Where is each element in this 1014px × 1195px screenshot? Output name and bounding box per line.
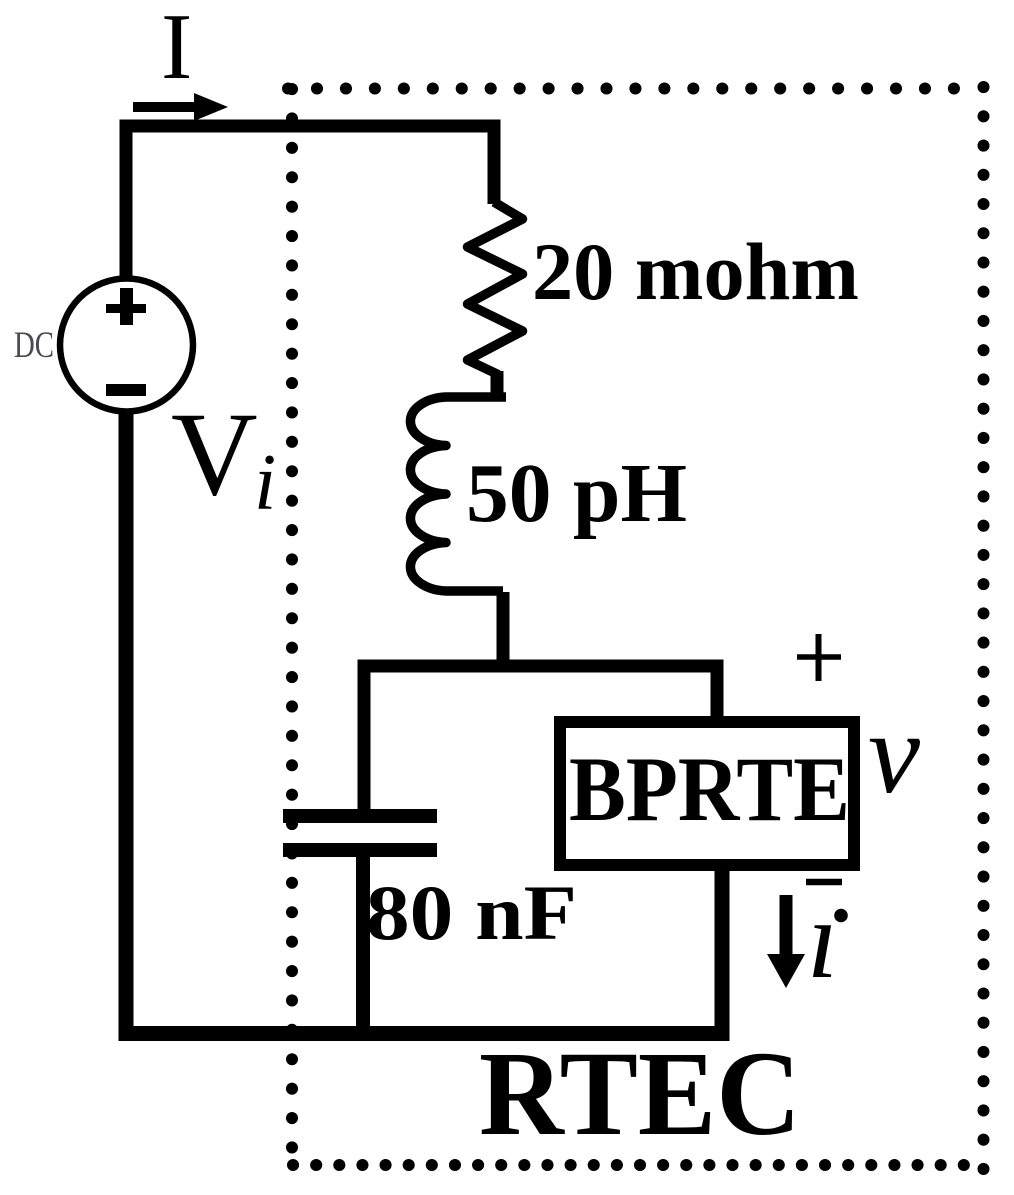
svg-text:DC: DC	[14, 325, 54, 366]
svg-text:20 mohm: 20 mohm	[532, 226, 859, 317]
svg-text:50 pH: 50 pH	[466, 447, 687, 540]
BPRTE box U1	[560, 722, 854, 865]
wire: left wire bottom + bottom wire + BPRTE bottom stub	[126, 408, 722, 1034]
svg-text:BPRTE: BPRTE	[569, 738, 850, 840]
inductor L 50 pH coil	[410, 397, 506, 591]
wire: resistor bottom stub junction	[491, 371, 504, 396]
wire: top bar of parallel section with capacitor branch down and BPRTE stub	[364, 666, 717, 812]
current arrow i (down)	[780, 895, 793, 958]
polarity minus below box	[806, 879, 842, 886]
polarity plus above BPRTE	[797, 654, 841, 660]
resistor R 20 mohm zigzag	[468, 202, 523, 399]
dotted box RTEC boundary: bottom edge	[293, 1159, 984, 1171]
svg-text:V: V	[171, 387, 258, 520]
DC source plus sign	[106, 304, 146, 313]
dotted box RTEC boundary: right edge	[978, 87, 990, 1172]
DC source minus sign	[106, 384, 146, 396]
svg-text:ı: ı	[807, 878, 838, 1002]
svg-text:i: i	[254, 439, 276, 527]
svg-text:I: I	[161, 0, 192, 99]
svg-text:v: v	[868, 690, 921, 817]
capacitor bottom plate	[283, 843, 437, 857]
capacitor C 80 nF: top plate	[283, 809, 437, 823]
DC source V1: circle	[60, 279, 193, 412]
wire: top wire from source to resistor top	[126, 126, 494, 278]
current arrow I at top	[133, 102, 202, 112]
dotted box RTEC boundary: top edge	[288, 83, 981, 95]
svg-text:80 nF: 80 nF	[366, 869, 577, 956]
svg-text:RTEC: RTEC	[479, 1027, 801, 1161]
dotted box RTEC boundary: left edge	[286, 89, 298, 1150]
wire: inductor bottom to top bar junction	[497, 592, 510, 668]
wire: capacitor bottom plate to bottom wire	[356, 854, 370, 1034]
